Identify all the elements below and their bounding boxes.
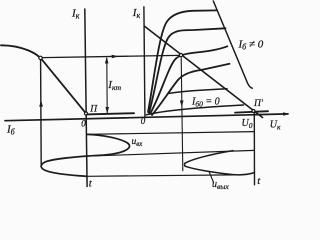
svg-text:t: t (257, 175, 261, 187)
curve family c5 (168, 89, 227, 94)
wire right time axis (253, 113, 255, 185)
wire Ikt dimension arrow (106, 58, 108, 113)
svg-text:П': П' (253, 99, 264, 109)
svg-text:Iб: Iб (6, 124, 16, 137)
node operating point circle (179, 54, 182, 57)
wire P' level line (235, 111, 268, 112)
node knee circle (39, 56, 42, 59)
wire P level line (86, 113, 134, 114)
svg-text:Iб0 = 0: Iб0 = 0 (191, 97, 220, 109)
curve family boundary (213, 1, 252, 88)
node up arrow on knee vertical (39, 100, 43, 107)
svg-text:U0: U0 (242, 118, 253, 130)
wire projection line 2 (85, 150, 254, 156)
node main axis right arrow (283, 112, 289, 116)
svg-text:0: 0 (141, 116, 146, 126)
wire vertical construction below operating point (181, 58, 183, 171)
svg-text:Uк: Uк (270, 119, 281, 131)
node Ikt arrow down (105, 107, 109, 113)
curve family c1 (148, 10, 217, 112)
wire dynamic line knee to P (42, 60, 85, 112)
curve Ib0=0 bottom (146, 105, 243, 115)
node transfer curve (1, 45, 39, 56)
svg-text:uвх: uвх (132, 137, 143, 148)
wire projection line 3 (87, 175, 234, 176)
wire projection line 1 (88, 132, 254, 135)
curve family c3 (150, 46, 227, 114)
svg-text:Iкт: Iкт (107, 79, 121, 92)
node projection arrowhead (112, 55, 119, 59)
curve output pulse tip (183, 163, 186, 166)
svg-text:t: t (89, 178, 93, 190)
curve output pulse upper (185, 151, 233, 163)
curve family c2 (149, 28, 226, 113)
svg-text:Iк: Iк (132, 7, 141, 20)
wire vertical from knee (40, 60, 43, 167)
curve family c4 (152, 64, 230, 115)
wire main horizontal axis (5, 114, 288, 121)
node right Ik axis (144, 7, 145, 117)
curve input sine (41, 134, 129, 176)
node P' circle (252, 110, 255, 113)
load line (144, 26, 262, 118)
node down arrow on construction line (180, 100, 184, 107)
node Ikt arrow up (105, 57, 109, 64)
svg-text:Iк: Iк (71, 7, 80, 20)
svg-text:П: П (89, 105, 98, 115)
node left Ik axis and time axis (85, 9, 87, 187)
wire Ikt projection horizontal (43, 55, 179, 57)
svg-text:uвых: uвых (212, 179, 229, 191)
node P circle (85, 112, 88, 115)
svg-text:Iб ≠ 0: Iб ≠ 0 (238, 39, 264, 52)
wire label leader (209, 172, 214, 183)
curve output pulse lower (185, 166, 254, 174)
svg-text:0: 0 (81, 119, 86, 129)
